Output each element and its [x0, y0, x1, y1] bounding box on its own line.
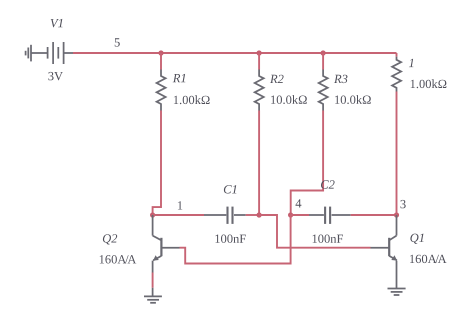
battery V1: [48, 42, 73, 64]
junction rail/R3: [321, 50, 326, 55]
wire ground to battery: [31, 52, 48, 54]
resistor 1: [392, 57, 401, 92]
label C2: [313, 235, 343, 243]
label 100nF (C2): [296, 199, 302, 207]
label 100nF (C1): [215, 235, 245, 243]
resistor R1: [157, 70, 166, 111]
wire R3 to node 4: [291, 111, 323, 216]
wire node 4 to C2: [291, 214, 309, 216]
node 4 label: [321, 180, 335, 188]
transistor Q2: [153, 215, 180, 273]
node 1 junction: [150, 212, 155, 217]
wire net 5 : top rail: [73, 52, 397, 54]
label 1.00k ohm (resistor 1): [411, 79, 447, 88]
ground (Q1 emitter): [388, 289, 406, 296]
label 10.0k ohm (R3): [335, 95, 371, 104]
junction C1/R2/Q1-base: [257, 212, 262, 217]
node 3 label: [401, 200, 406, 208]
wire rail to R1: [160, 53, 162, 70]
wire resistor 1 to node 3: [396, 92, 398, 216]
wire R2 to node (C1 right): [258, 111, 260, 216]
capacitor C1: [204, 207, 246, 224]
wire C1 to node (R2 bottom): [246, 214, 259, 216]
wire node 4 to Q2 base: [180, 215, 291, 264]
node 3 junction: [394, 212, 399, 217]
label 1 (resistor): [409, 59, 414, 67]
resistor R2: [255, 70, 264, 111]
capacitor C2: [309, 207, 351, 224]
label R1: [173, 74, 186, 82]
wire Q2 emitter to ground: [152, 273, 154, 288]
label R3: [334, 75, 348, 83]
node 5 label: [115, 38, 120, 46]
ground (Q2 emitter): [144, 288, 162, 303]
junction rail/R2: [257, 50, 262, 55]
label 160A/A (Q2): [100, 255, 137, 263]
resistor R3: [319, 70, 328, 111]
wire R1 to node 1: [153, 111, 161, 216]
label 3V: [48, 72, 63, 81]
wire rail to R3: [322, 53, 324, 70]
wire C2 to node 3: [351, 214, 397, 216]
label C1: [224, 185, 237, 193]
node 4 junction: [288, 212, 293, 217]
wire node to Q1 base: [259, 215, 370, 248]
label 10.0k ohm (R2): [271, 95, 307, 104]
ground (battery negative terminal): [26, 45, 31, 62]
label Q2: [103, 234, 117, 244]
node 1 label: [178, 201, 182, 209]
label R2: [270, 75, 284, 83]
wire rail to resistor 1 (right): [396, 53, 398, 57]
wire node 1 to C1: [153, 214, 204, 216]
junction rail/R1: [158, 50, 163, 55]
wire rail to R2: [258, 53, 260, 70]
label 1.00k ohm (R1): [174, 95, 210, 104]
label 160A/A (Q1): [410, 255, 447, 263]
label V1: [51, 19, 63, 28]
transistor Q1: [371, 215, 398, 288]
label Q1: [410, 234, 423, 244]
